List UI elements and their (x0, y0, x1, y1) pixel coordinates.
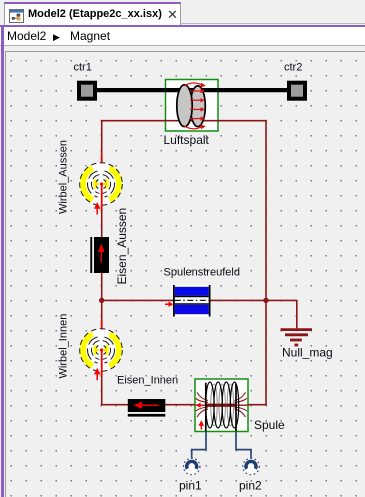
svg-text:pin2: pin2 (239, 479, 262, 493)
svg-text:Eisen_Aussen: Eisen_Aussen (115, 208, 129, 285)
wire: thick black bus ctr1-ctr2 (96, 88, 288, 92)
wire: right vertical (265, 120, 267, 406)
terminal ctr1 (77, 81, 97, 101)
wire: bottom-right horizontal from Spule (248, 404, 267, 406)
air gap Luftspalt box (166, 80, 219, 132)
pin pin2 (236, 432, 259, 475)
svg-text:Eisen_Innen: Eisen_Innen (117, 375, 178, 387)
wire: ground branch (266, 300, 297, 328)
wire: left vertical (101, 120, 103, 406)
node: junction right (263, 298, 268, 303)
breadcrumb: Model2 > Magnet (0, 27, 365, 46)
tab: Model2 (Etappe2c_xx.isx) (4, 2, 181, 25)
eddy-current element Wirbel_Innen (80, 320, 123, 380)
svg-text:Null_mag: Null_mag (282, 346, 333, 360)
Luftspalt red arrowheads (201, 83, 206, 130)
pin pin1 (184, 432, 207, 475)
svg-text:pin1: pin1 (179, 479, 202, 493)
Luftspalt ellipses (177, 85, 206, 127)
svg-text:Wirbel_Aussen: Wirbel_Aussen (58, 140, 70, 214)
coil winding Spule (196, 382, 248, 431)
Luftspalt red field arrows (184, 83, 202, 129)
purple separators (0, 25, 365, 27)
svg-text:Spulenstreufeld: Spulenstreufeld (164, 267, 240, 279)
iron element Eisen_Innen (128, 399, 166, 417)
terminal ctr2 (287, 81, 307, 101)
ground Null_mag (281, 330, 313, 345)
svg-text:Luftspalt: Luftspalt (164, 133, 210, 147)
wire: red loop top horizontal (102, 120, 266, 122)
wire: bottom-left horizontal to Spule (101, 404, 196, 406)
leakage-field element Spulenstreufeld (165, 285, 210, 317)
iron element Eisen_Aussen (90, 237, 109, 273)
svg-text:Wirbel_Innen: Wirbel_Innen (58, 314, 70, 379)
coil Spule box (195, 379, 248, 432)
wire: middle horizontal through Spulenstreufeld (102, 299, 266, 301)
svg-text:ctr1: ctr1 (74, 62, 92, 74)
svg-text:Spule: Spule (254, 418, 285, 432)
eddy-current element Wirbel_Aussen (80, 155, 123, 215)
node: junction left (99, 298, 104, 303)
svg-text:ctr2: ctr2 (284, 62, 302, 74)
